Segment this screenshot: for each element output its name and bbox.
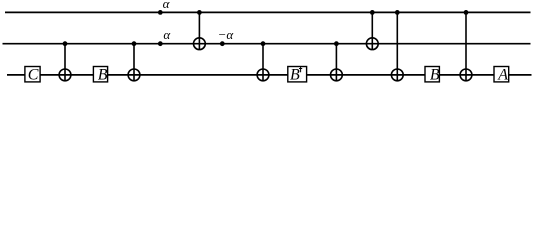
wire q2 (bottom)	[7, 74, 532, 76]
gate A	[494, 67, 509, 82]
control dot q0 x372	[370, 10, 375, 15]
control dot q0 x199	[197, 10, 202, 15]
control dot q0 x397	[395, 10, 400, 15]
cnot target q2 x134	[128, 69, 140, 81]
gate B dagger	[288, 67, 307, 82]
cnot target q2 x65	[59, 69, 71, 81]
svg-text:B: B	[430, 67, 440, 84]
phase dot -alpha q1	[220, 41, 225, 46]
wire control line CNOT8 (top to bottom)	[465, 12, 467, 80]
wire control line CNOT1	[64, 44, 66, 81]
cnot target q2 x263	[257, 69, 269, 81]
svg-text:B: B	[98, 67, 108, 84]
svg-text:α: α	[163, 0, 171, 11]
cnot target q2 x336	[331, 69, 343, 81]
svg-text:B: B	[290, 67, 300, 84]
cnot target q1 x199	[194, 38, 206, 50]
phase dot alpha q1	[158, 41, 163, 46]
svg-text:A: A	[497, 67, 508, 84]
wire control line CNOT5	[335, 44, 337, 81]
control dot q1 x336	[334, 41, 339, 46]
wire q0 (top)	[5, 11, 531, 13]
wire control line CNOT6 (top to middle)	[371, 12, 373, 49]
gate C	[25, 67, 40, 82]
wire control line CNOT2	[133, 44, 135, 81]
control dot q1 x134	[132, 41, 137, 46]
phase dot alpha q0	[158, 10, 163, 15]
wire q1 (middle)	[3, 43, 531, 45]
gate B1	[93, 67, 107, 82]
svg-text:−α: −α	[218, 27, 235, 42]
wire control line CNOT7 (top to bottom)	[396, 12, 398, 80]
control dot q1 x263	[261, 41, 266, 46]
wire control line CNOT4	[262, 44, 264, 81]
control dot q1 x65	[63, 41, 68, 46]
svg-text:α: α	[163, 27, 171, 42]
control dot q0 x466	[464, 10, 469, 15]
svg-text:C: C	[28, 66, 39, 83]
cnot target q1 x372	[366, 38, 378, 50]
cnot target q2 x397	[391, 69, 403, 81]
wire control line CNOT3 (top to middle)	[198, 12, 200, 49]
cnot target q2 x466	[460, 69, 472, 81]
gate B2	[425, 67, 439, 82]
